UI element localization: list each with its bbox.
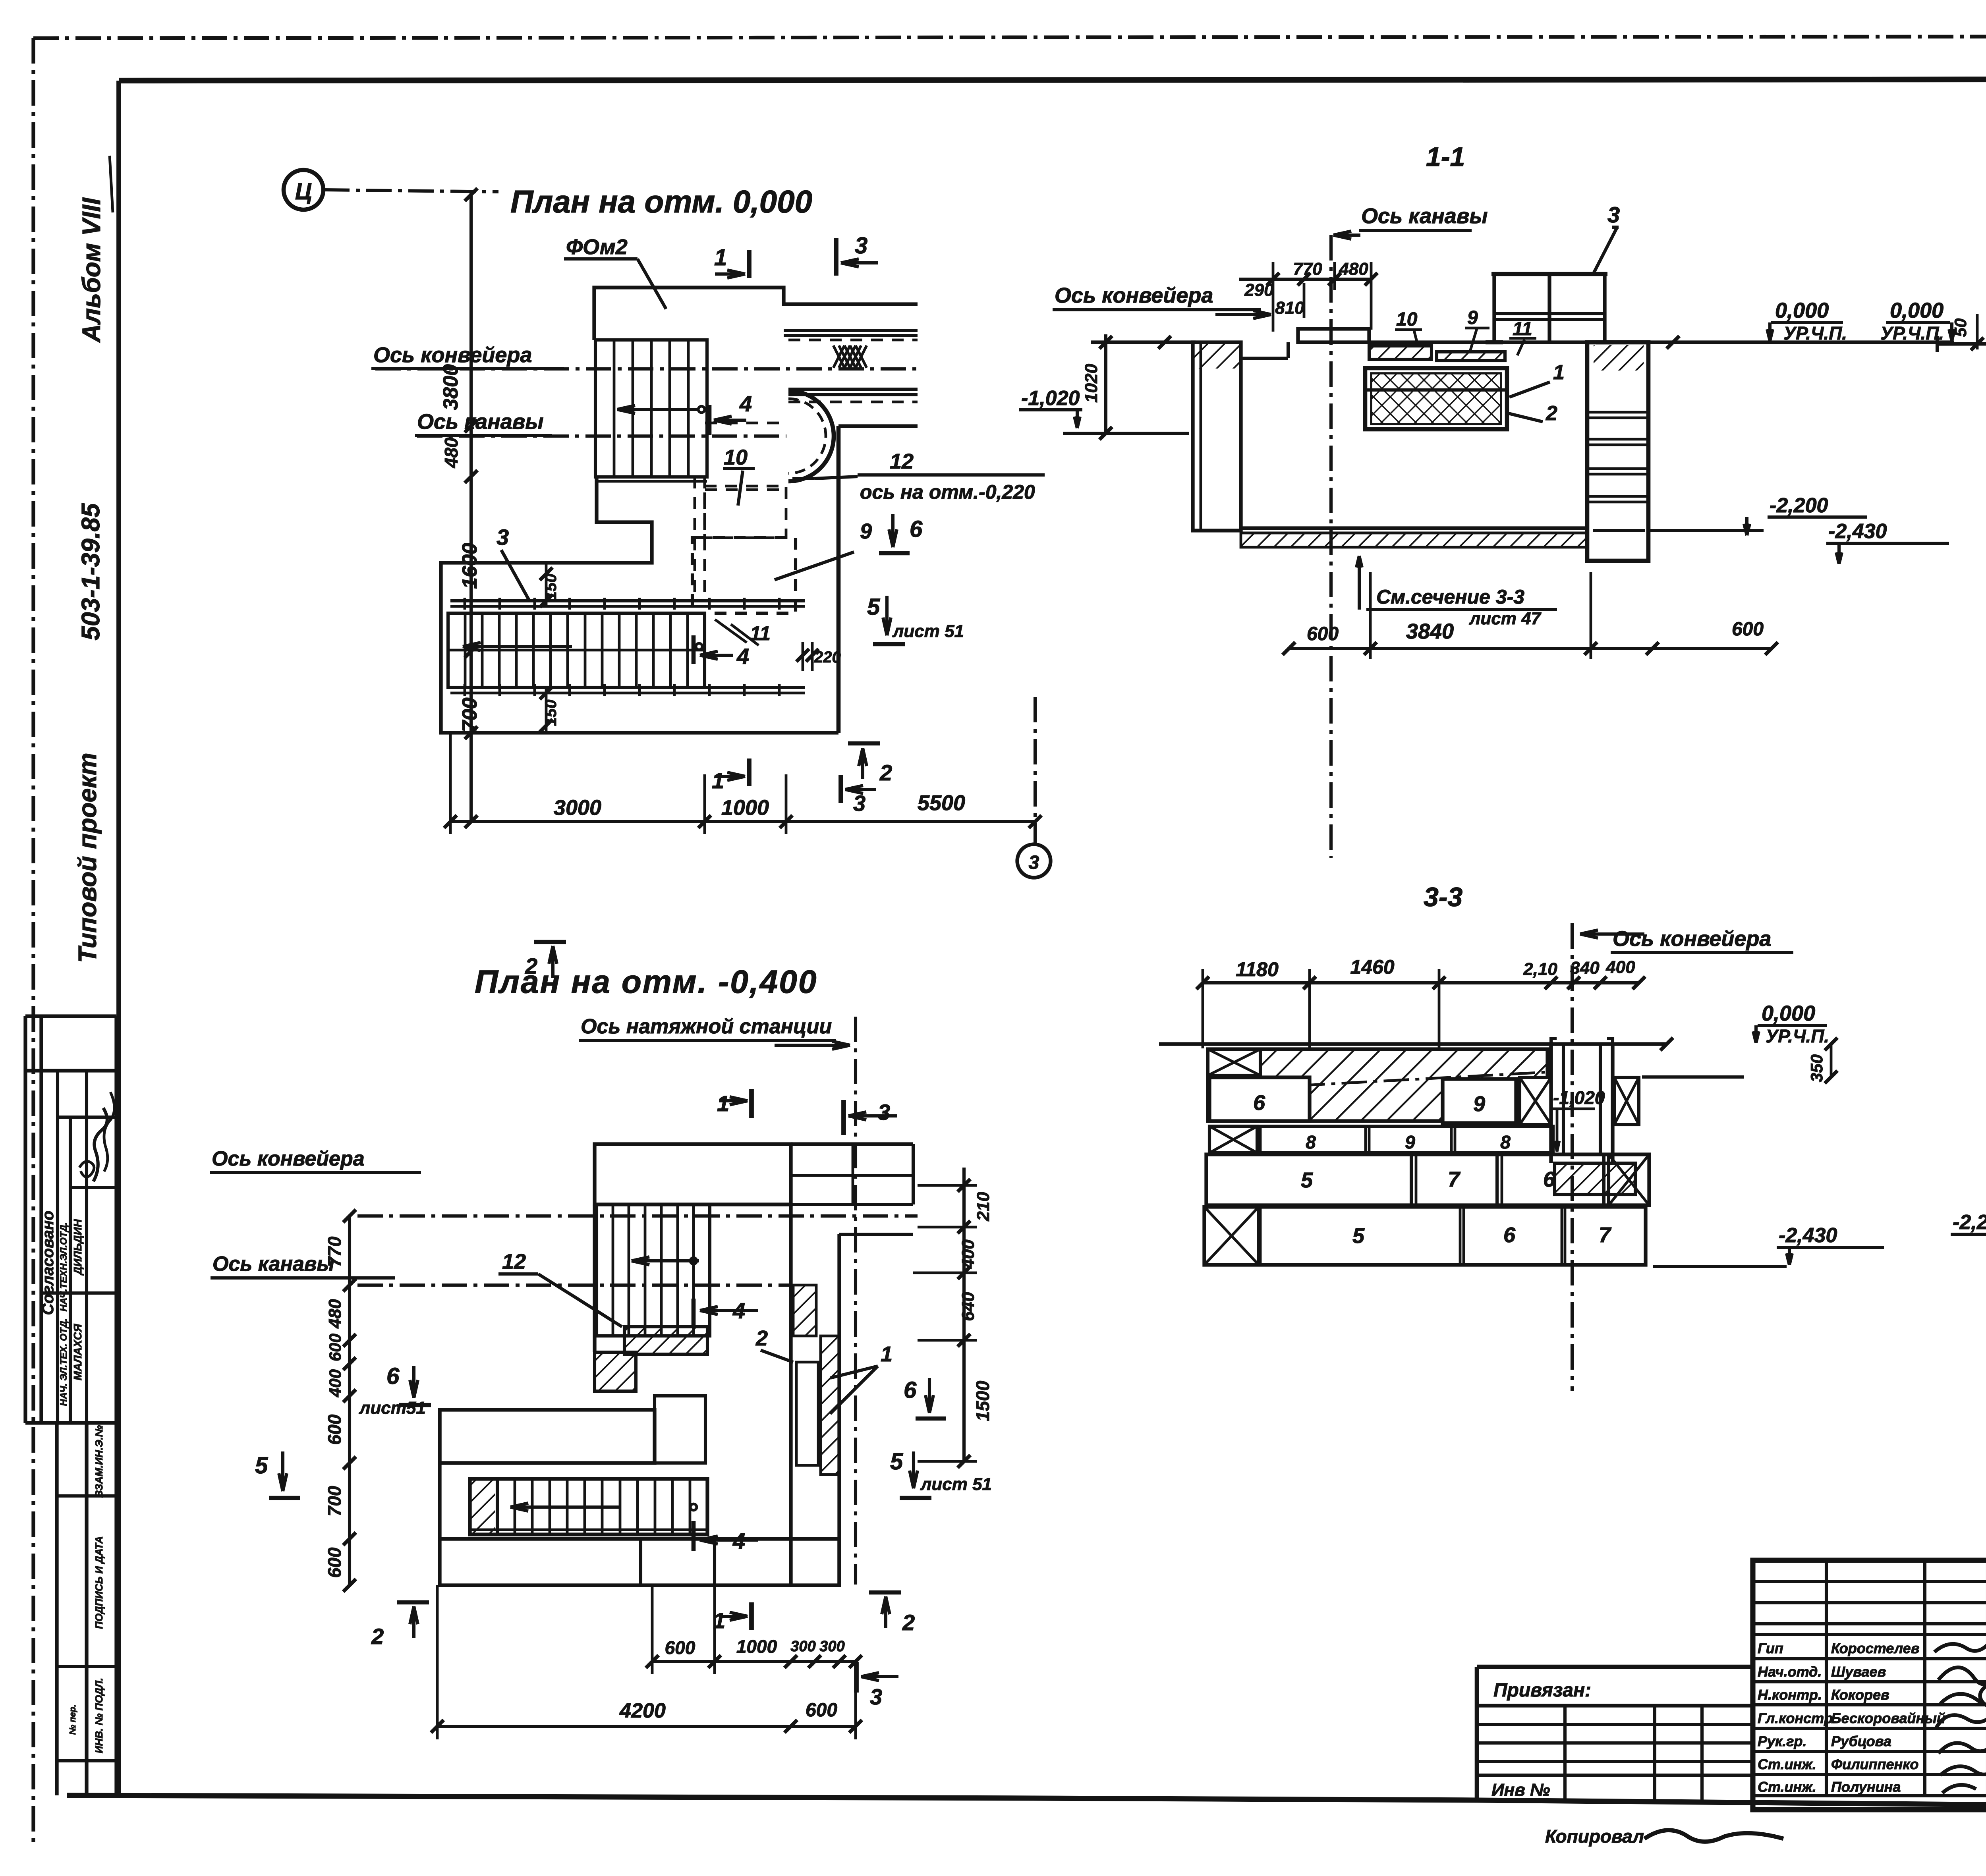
figD row 5 7 6 X — [1206, 1154, 1649, 1205]
svg-text:Ось канавы: Ось канавы — [213, 1253, 334, 1276]
svg-text:503-1-39.85: 503-1-39.85 — [76, 503, 105, 641]
svg-text:11: 11 — [1513, 318, 1532, 340]
figA conveyor ladder treads — [595, 340, 707, 477]
svg-text:Привязан:: Привязан: — [1493, 1680, 1591, 1701]
svg-text:50: 50 — [1951, 318, 1970, 337]
outer dash-dot border left — [31, 38, 35, 1843]
figA ladder arrow — [617, 408, 699, 411]
svg-text:НАЧ. ЭЛ.ТЕХ. ОТД.: НАЧ. ЭЛ.ТЕХ. ОТД. — [58, 1318, 69, 1406]
svg-text:-2,430: -2,430 — [1828, 520, 1887, 543]
svg-text:Ось конвейера: Ось конвейера — [1055, 284, 1213, 307]
svg-text:6: 6 — [386, 1363, 400, 1389]
svg-text:4: 4 — [739, 391, 752, 416]
svg-text:1: 1 — [1553, 361, 1565, 384]
figE upper slab — [595, 1144, 791, 1204]
svg-text:ось на отм.-0,220: ось на отм.-0,220 — [860, 481, 1035, 503]
svg-text:9: 9 — [1473, 1092, 1485, 1116]
figE right dim chain — [962, 1168, 966, 1461]
svg-text:0,000: 0,000 — [1775, 299, 1829, 322]
svg-text:10: 10 — [724, 446, 748, 469]
figD ground line — [1159, 1042, 1667, 1046]
figA section mark 3 bottom right — [838, 775, 843, 803]
figA dashed chamber 9 — [692, 538, 796, 613]
svg-text:9: 9 — [860, 519, 872, 543]
svg-text:10: 10 — [1396, 309, 1418, 330]
figD xbox right of 9 — [1520, 1077, 1551, 1125]
figD box 6 in slab — [1209, 1077, 1310, 1121]
svg-text:0,000: 0,000 — [1890, 299, 1943, 322]
figE ladder arrow — [632, 1259, 699, 1262]
figA column axis 3 circle — [1034, 697, 1037, 844]
svg-text:ДИЛЬДИН: ДИЛЬДИН — [71, 1219, 84, 1276]
svg-text:Рубцова: Рубцова — [1831, 1733, 1891, 1749]
svg-text:Филиппенко: Филиппенко — [1831, 1756, 1918, 1772]
svg-text:1: 1 — [717, 1091, 729, 1116]
figD shaft — [1549, 1044, 1553, 1163]
svg-text:600: 600 — [1307, 623, 1339, 645]
svg-text:-1,020: -1,020 — [1021, 387, 1080, 410]
stamp table soglasovano grid — [23, 1016, 27, 1423]
svg-text:9: 9 — [1467, 307, 1478, 328]
svg-text:3: 3 — [855, 233, 867, 259]
svg-text:640: 640 — [958, 1292, 978, 1321]
svg-text:480: 480 — [441, 437, 462, 468]
svg-text:Гип: Гип — [1758, 1640, 1783, 1656]
svg-text:ПОДПИСЬ И ДАТА: ПОДПИСЬ И ДАТА — [93, 1536, 105, 1629]
svg-text:6: 6 — [904, 1377, 917, 1403]
figD top dim line — [1203, 981, 1639, 984]
svg-text:Гл.констр.: Гл.констр. — [1758, 1710, 1837, 1726]
svg-text:3: 3 — [853, 791, 865, 816]
outer dash-dot border top — [33, 36, 1986, 38]
svg-text:9: 9 — [1405, 1132, 1415, 1152]
svg-text:1: 1 — [714, 245, 727, 270]
svg-text:8: 8 — [1306, 1132, 1316, 1152]
svg-text:Типовой проект: Типовой проект — [73, 753, 102, 963]
svg-text:5: 5 — [1352, 1224, 1365, 1248]
svg-text:Ось натяжной станции: Ось натяжной станции — [581, 1015, 832, 1038]
svg-text:Н.контр.: Н.контр. — [1758, 1687, 1822, 1703]
svg-text:ВЗАМ.ИН.Э.№: ВЗАМ.ИН.Э.№ — [93, 1425, 105, 1498]
svg-text:Ц: Ц — [295, 179, 312, 205]
svg-text:400: 400 — [958, 1239, 978, 1269]
figB slab 10 hatched — [1369, 346, 1432, 359]
figE hatched wedge under ladder — [624, 1327, 707, 1354]
svg-text:2: 2 — [902, 1610, 915, 1635]
svg-text:Ось конвейера: Ось конвейера — [373, 343, 532, 367]
figB pit floor — [1241, 526, 1587, 530]
title block privyazan table — [1475, 1667, 1479, 1800]
svg-text:12: 12 — [890, 450, 914, 473]
figE middle outline — [593, 1204, 596, 1352]
stamp signatures squiggles — [93, 1108, 107, 1181]
svg-text:Кокорев: Кокорев — [1831, 1687, 1889, 1703]
svg-text:Согласовано: Согласовано — [39, 1211, 57, 1315]
svg-text:480: 480 — [1339, 259, 1368, 279]
svg-text:1500: 1500 — [972, 1380, 993, 1421]
svg-text:6: 6 — [1253, 1091, 1265, 1115]
svg-text:УР.Ч.П.: УР.Ч.П. — [1766, 1026, 1829, 1046]
figE right column hatches — [793, 1285, 816, 1336]
svg-text:Полунина: Полунина — [1831, 1779, 1901, 1795]
figC ground line — [1937, 343, 1986, 344]
svg-text:2: 2 — [371, 1624, 384, 1649]
figE upper right blocks — [791, 1142, 913, 1146]
figA conveyor turn arc — [788, 391, 834, 481]
figB stand 3 frame — [1491, 272, 1607, 276]
figA axis mark Ts circle — [284, 170, 323, 210]
svg-text:Ось канавы: Ось канавы — [1361, 204, 1488, 228]
svg-text:7: 7 — [1599, 1223, 1612, 1247]
figA upper rail double line — [450, 599, 805, 602]
svg-text:5: 5 — [890, 1449, 903, 1475]
svg-text:0,000: 0,000 — [1762, 1002, 1815, 1025]
svg-text:480: 480 — [325, 1299, 345, 1329]
svg-text:Ось канавы: Ось канавы — [417, 410, 544, 434]
svg-text:1000: 1000 — [736, 1636, 777, 1657]
figB top dim line — [1239, 278, 1371, 281]
figE section mark 2 right bottom — [869, 1590, 901, 1595]
figA section mark 2 bottom left — [534, 940, 566, 944]
figB slab 9 hatched — [1437, 352, 1505, 361]
svg-text:1-1: 1-1 — [1426, 142, 1465, 172]
svg-text:300: 300 — [819, 1638, 844, 1655]
svg-text:ИНВ. № ПОДЛ.: ИНВ. № ПОДЛ. — [93, 1678, 105, 1753]
figA lower rail double line — [450, 686, 805, 689]
svg-text:1460: 1460 — [1350, 956, 1394, 978]
svg-text:Ось конвейера: Ось конвейера — [212, 1147, 365, 1170]
figE section mark 3 bottom — [854, 1662, 859, 1693]
svg-text:1020: 1020 — [1082, 364, 1101, 403]
svg-text:5500: 5500 — [918, 791, 965, 815]
svg-text:НАЧ.ТЕХН.ЭЛ.ОТД.: НАЧ.ТЕХН.ЭЛ.ОТД. — [58, 1222, 69, 1312]
svg-text:Бескоровайный: Бескоровайный — [1831, 1710, 1945, 1726]
figD row X 5 6 7 — [1204, 1207, 1646, 1265]
figA axis dash-dot from Ts to title — [324, 190, 498, 192]
figA structure right wall — [837, 426, 841, 733]
figA section mark 2 bottom right — [848, 741, 880, 746]
svg-text:1600: 1600 — [458, 543, 481, 589]
svg-text:400: 400 — [1605, 957, 1635, 977]
svg-text:Ст.инж.: Ст.инж. — [1758, 1756, 1816, 1772]
figB mat block cross-hatched — [1365, 368, 1507, 429]
svg-text:лист 47: лист 47 — [1469, 609, 1542, 628]
svg-text:План на отм. 0,000: План на отм. 0,000 — [510, 184, 812, 219]
svg-text:1180: 1180 — [1236, 958, 1279, 980]
svg-text:3: 3 — [870, 1684, 882, 1709]
figB trench floor level line — [1063, 432, 1189, 435]
figA bottom dim line — [450, 820, 1035, 823]
svg-text:лист51: лист51 — [359, 1398, 426, 1418]
figA right arm conveyor band — [784, 329, 918, 332]
figE bottom band cells — [440, 1539, 839, 1585]
figD box 9 in slab — [1443, 1079, 1516, 1123]
svg-text:Ось конвейера: Ось конвейера — [1613, 927, 1771, 951]
figB ground line left — [1091, 340, 1196, 344]
svg-text:350: 350 — [1807, 1054, 1826, 1082]
svg-text:700: 700 — [458, 698, 481, 732]
svg-text:4200: 4200 — [619, 1699, 666, 1722]
svg-text:-1,020: -1,020 — [1553, 1087, 1605, 1108]
svg-text:3000: 3000 — [554, 796, 601, 820]
svg-text:300: 300 — [790, 1638, 815, 1655]
inner frame left — [116, 81, 121, 1795]
figD row 8 9 8 — [1209, 1126, 1553, 1153]
svg-text:2: 2 — [755, 1326, 768, 1350]
figE lower ladder arrow — [510, 1505, 620, 1509]
svg-text:3840: 3840 — [1406, 620, 1454, 643]
svg-text:210: 210 — [974, 1192, 993, 1222]
svg-text:600: 600 — [665, 1637, 695, 1658]
figA lower ladder arrow — [463, 645, 572, 648]
figA dashed duct 10 — [705, 486, 786, 538]
svg-text:№ пер.: № пер. — [68, 1704, 77, 1735]
title block signature table grid — [1753, 1560, 1986, 1810]
svg-text:УР.Ч.П.: УР.Ч.П. — [1783, 323, 1847, 344]
svg-text:5: 5 — [867, 594, 880, 620]
svg-text:3: 3 — [878, 1100, 890, 1125]
figB left pit wall — [1193, 342, 1241, 531]
svg-text:-2,200: -2,200 — [1953, 1211, 1986, 1234]
figE right column — [789, 1204, 792, 1585]
svg-text:3: 3 — [496, 525, 509, 550]
figA top slab outline — [594, 288, 918, 340]
figD conveyor axis vertical — [1571, 923, 1574, 1391]
figD main hatched slab — [1208, 1049, 1547, 1121]
svg-text:600: 600 — [324, 1547, 345, 1578]
svg-text:1000: 1000 — [721, 796, 769, 820]
figD dim 350 — [1642, 1075, 1744, 1079]
svg-text:1: 1 — [881, 1342, 893, 1366]
svg-text:600: 600 — [1732, 619, 1764, 640]
svg-text:340: 340 — [1570, 958, 1600, 978]
svg-text:лист 51: лист 51 — [920, 1475, 992, 1494]
svg-text:См.сечение 3-3: См.сечение 3-3 — [1376, 586, 1524, 608]
figD xbox right shaft — [1614, 1077, 1639, 1125]
figE bottom dim line 2 — [437, 1725, 856, 1728]
svg-text:Рук.гр.: Рук.гр. — [1758, 1733, 1807, 1749]
svg-text:лист 51: лист 51 — [892, 621, 964, 641]
figE left dim chain — [348, 1216, 351, 1585]
svg-text:290: 290 — [1244, 280, 1274, 300]
svg-text:1: 1 — [712, 768, 724, 793]
svg-text:Нач.отд.: Нач.отд. — [1758, 1664, 1822, 1680]
figE conveyor ladder treads — [597, 1204, 710, 1336]
svg-text:700: 700 — [324, 1486, 345, 1516]
figB pit upper plateau curb — [1298, 329, 1369, 342]
svg-text:-2,200: -2,200 — [1770, 494, 1828, 517]
figD xbox top left — [1208, 1049, 1260, 1075]
figA left notch outline — [441, 477, 838, 733]
svg-text:770: 770 — [324, 1236, 345, 1267]
figE bottom dim line 1 — [652, 1660, 856, 1663]
svg-text:Шуваев: Шуваев — [1831, 1664, 1886, 1680]
figB bottom dim line — [1289, 647, 1772, 650]
svg-text:5: 5 — [1301, 1168, 1313, 1192]
svg-text:2: 2 — [879, 760, 892, 785]
svg-text:5: 5 — [255, 1453, 268, 1478]
figA lower ladder — [448, 613, 705, 687]
figE left step block hatched — [595, 1352, 636, 1391]
svg-text:400: 400 — [326, 1369, 344, 1397]
figB ground line right — [1369, 340, 1954, 344]
svg-text:2: 2 — [1546, 402, 1557, 425]
svg-text:2,10: 2,10 — [1523, 959, 1557, 979]
svg-text:6: 6 — [1503, 1223, 1516, 1247]
figA middle dashed shaft lines — [694, 477, 696, 601]
stamp table lower grid — [55, 1423, 58, 1795]
svg-text:600: 600 — [324, 1414, 345, 1445]
svg-text:600: 600 — [326, 1334, 344, 1361]
svg-text:Копировал: Копировал — [1545, 1826, 1644, 1847]
svg-text:8: 8 — [1500, 1132, 1511, 1152]
svg-text:Альбом VIII: Альбом VIII — [77, 197, 106, 343]
figE middle slab band — [440, 1410, 655, 1463]
svg-text:Ст.инж.: Ст.инж. — [1758, 1779, 1816, 1795]
svg-text:-2,430: -2,430 — [1779, 1224, 1837, 1247]
svg-text:810: 810 — [1275, 298, 1304, 318]
svg-text:3-3: 3-3 — [1424, 882, 1462, 912]
svg-text:3: 3 — [1029, 852, 1039, 873]
svg-text:МАЛАХСЯ: МАЛАХСЯ — [71, 1324, 84, 1380]
svg-text:УР.Ч.П.: УР.Ч.П. — [1880, 323, 1944, 344]
svg-text:Коростелев: Коростелев — [1831, 1640, 1919, 1656]
figB right wall — [1587, 342, 1648, 561]
figB kanava axis vertical — [1329, 235, 1333, 858]
figE natyazh axis vertical — [854, 1017, 857, 1585]
svg-text:ФОм2: ФОм2 — [566, 235, 628, 259]
figB dim 1020 vertical — [1104, 334, 1107, 433]
svg-text:Инв №: Инв № — [1491, 1780, 1550, 1800]
svg-text:4: 4 — [736, 644, 749, 669]
inner frame top — [119, 79, 1986, 81]
svg-text:12: 12 — [502, 1250, 526, 1274]
figA left dimension line vertical — [469, 190, 473, 822]
figA hatch mark on arm — [833, 345, 844, 368]
svg-text:3: 3 — [1607, 202, 1620, 227]
figD shaft bottom hatch — [1555, 1163, 1635, 1195]
svg-text:6: 6 — [1543, 1168, 1555, 1191]
svg-text:3800: 3800 — [439, 364, 462, 410]
svg-text:770: 770 — [1293, 259, 1322, 279]
title block signature squiggles — [1934, 1642, 1986, 1793]
inner frame bottom — [67, 1795, 1986, 1810]
figE lower ladder — [470, 1479, 707, 1534]
svg-text:6: 6 — [910, 516, 923, 542]
svg-text:600: 600 — [806, 1700, 837, 1721]
svg-text:План на отм. -0,400: План на отм. -0,400 — [475, 964, 817, 1000]
svg-text:7: 7 — [1448, 1168, 1461, 1191]
